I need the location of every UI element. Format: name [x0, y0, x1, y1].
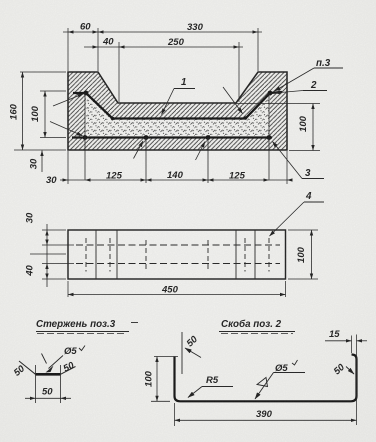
- label 1 leader right: [223, 87, 243, 114]
- plan dimension 450: [68, 294, 286, 296]
- leader to upper-left rebar dot: [53, 94, 84, 106]
- top extension lines: [68, 28, 258, 102]
- extension lines for 15 / 390: [352, 335, 357, 426]
- lower reinforcement mesh: [72, 136, 272, 138]
- dimension 50: [25, 397, 71, 399]
- concrete light dotted hatch (core band between meshes): [86, 95, 270, 137]
- plan dimension 100: [311, 230, 313, 279]
- dimension 100 (right): [312, 104, 314, 151]
- stirrup body: [175, 355, 357, 402]
- dimension 100: [151, 357, 178, 402]
- plan outline: [68, 230, 286, 279]
- hidden longitudinal bars (dashed): [76, 245, 280, 264]
- section outline: [68, 72, 287, 150]
- right extension lines: [236, 104, 320, 151]
- leader to lower rebar dot x146: [134, 141, 144, 159]
- plan dimension 30 / 40: [46, 224, 48, 287]
- concrete dense hatch (section body minus mesh core zone): [68, 72, 287, 150]
- dimension 100 (left): [40, 91, 66, 138]
- wall edge lines in plan: [96, 230, 255, 279]
- plan left extension lines: [42, 230, 74, 279]
- O5 leader: [49, 356, 64, 369]
- leg label 50 with leader: [185, 348, 201, 358]
- O5 leader with flag: [255, 373, 274, 400]
- dimension 390: [174, 403, 176, 426]
- label 1 leader left: [162, 89, 175, 115]
- dimension line 60 / 330: [63, 31, 262, 33]
- dimension 160: [22, 72, 24, 150]
- rebar dot left (item p.3): [84, 91, 89, 96]
- vertical bar lines / extensions through section: [85, 93, 269, 183]
- title underline: [36, 331, 129, 333]
- mesh bend dot right: [244, 116, 247, 119]
- dimension 30 (left, cover): [41, 151, 43, 173]
- plan bottom extension lines: [68, 281, 286, 297]
- bar bent end right: [61, 367, 76, 375]
- mesh bend dot left: [111, 117, 114, 120]
- upper reinforcement mesh (item 1): [73, 92, 282, 119]
- plan right extension lines: [288, 230, 318, 279]
- leader to lower rebar dot x208: [196, 142, 206, 161]
- lower rebar dots (item 3): [83, 135, 88, 140]
- title underline: [219, 331, 295, 333]
- left extension lines: [14, 72, 66, 150]
- rebar dot right (item p.3 / 2): [268, 91, 273, 96]
- bar bent end left: [19, 361, 36, 374]
- extension lines: [36, 365, 61, 403]
- left leg extension line: [181, 332, 183, 374]
- dimension line 30 / 125 / 140 / 125: [60, 179, 292, 181]
- dimension line 40 / 250: [84, 46, 243, 48]
- leader to lower-left rebar dot: [50, 122, 83, 136]
- bar body: [36, 373, 61, 376]
- hidden transverse bars near walls (dashed): [86, 238, 269, 272]
- hidden transverse bars mid-span (dashed): [146, 240, 208, 270]
- axis tick left of plan: [30, 253, 66, 255]
- bottom extension lines: [68, 151, 287, 184]
